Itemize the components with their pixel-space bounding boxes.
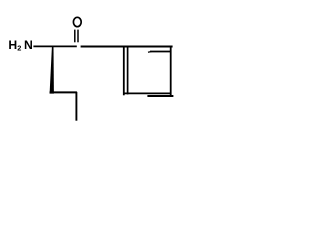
ring bottom edge <box>123 92 171 94</box>
ring right edge <box>170 47 172 97</box>
ring top inner double bond line <box>148 51 152 54</box>
wedge bond C2 to C3 <box>50 47 54 94</box>
oxygen atom O <box>73 17 81 26</box>
ring bottom inner double bond line <box>147 95 173 97</box>
bond C2 to carbonyl C1 <box>53 45 77 47</box>
bond C3 to C4 <box>50 91 77 93</box>
ring left edge inner double bond line <box>127 47 129 94</box>
bond N to C2 <box>33 45 53 47</box>
ring left edge outer <box>123 46 125 96</box>
carbonyl double bond C1=O <box>74 30 76 43</box>
bond C1 to ring plus ring top edge <box>81 46 173 48</box>
bond C4 to C5 methyl <box>75 92 77 121</box>
